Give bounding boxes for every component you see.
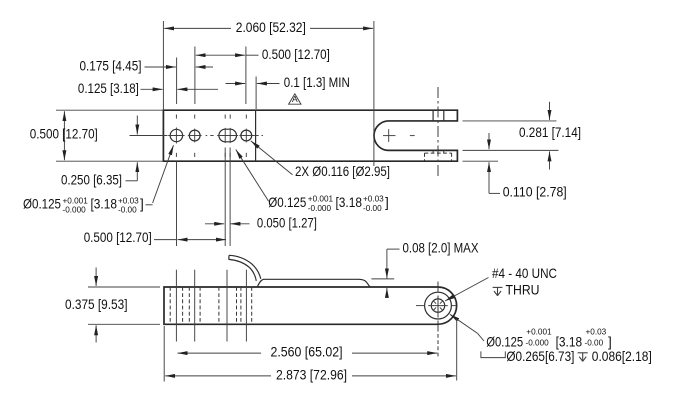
extension line right end for 2.873 — [456, 319, 458, 381]
svg-text:[3.18: [3.18 — [556, 334, 583, 349]
hidden hole edge lines in beam: H2 — [189, 287, 200, 324]
dimension 2.060 [52.32] — [164, 20, 373, 35]
svg-text:[3.18: [3.18 — [336, 195, 363, 210]
cable upper edge — [229, 255, 261, 278]
svg-text:0.125 [3.18]: 0.125 [3.18] — [78, 81, 139, 96]
gage cover top extension line — [371, 278, 394, 280]
hidden hole edge lines in beam: H3 obround — [219, 287, 237, 324]
extension lines left of top view — [56, 110, 168, 161]
svg-text:0.110 [2.78]: 0.110 [2.78] — [503, 185, 567, 200]
hole H4 (Ø0.116 second) — [239, 129, 253, 143]
svg-text:2X Ø0.116 [Ø2.95]: 2X Ø0.116 [Ø2.95] — [295, 164, 390, 179]
centerline extension to 2.560 dimension — [437, 334, 439, 357]
hole H1 (Ø0.125 left) — [168, 128, 184, 144]
vertical centerline of clevis pin hole — [437, 87, 439, 177]
dimension 0.281 [7.14] — [519, 102, 581, 170]
depth symbol for 0.086 — [578, 353, 588, 362]
leader #4-40 UNC to threaded hole — [445, 278, 489, 302]
dimension 0.500 [12.70] top — [196, 47, 330, 62]
hidden counterbore in bottom clevis arm — [425, 150, 452, 161]
hidden hole edge lines in beam: H4 — [241, 287, 252, 324]
svg-text:Ø0.125: Ø0.125 — [268, 195, 306, 210]
cable lower edge — [229, 259, 256, 281]
leader Ø0.125 callout to counterbore — [450, 314, 484, 341]
end hole crosshair — [428, 296, 448, 316]
gage cover mound on top of beam — [257, 279, 370, 287]
threaded hole inner circle — [431, 299, 444, 312]
clevis slot crosshair center mark — [383, 129, 396, 142]
extension lines left of bottom view — [88, 287, 160, 324]
svg-text:0.050 [1.27]: 0.050 [1.27] — [257, 215, 317, 230]
dimension 0.500 [12.70] lower — [84, 230, 226, 245]
svg-text:THRU: THRU — [506, 283, 540, 298]
leader 2X Ø0.116 callout to hole H4 — [251, 141, 293, 175]
hole centerlines crossing bottom view — [176, 270, 246, 342]
svg-text:0.500 [12.70]: 0.500 [12.70] — [262, 47, 330, 62]
svg-text:0.281 [7.14]: 0.281 [7.14] — [519, 125, 581, 140]
svg-text:Ø0.125: Ø0.125 — [486, 334, 523, 349]
hole center tick marks below holes — [176, 153, 246, 157]
svg-text:0.500 [12.70]: 0.500 [12.70] — [30, 127, 98, 142]
svg-text:]: ] — [140, 197, 144, 212]
top view beam outline with clevis slot — [163, 110, 457, 161]
svg-text:Ø0.265[6.73]: Ø0.265[6.73] — [506, 349, 574, 364]
hole H3 obround (two Ø0.125 holes 0.050 apart) — [217, 128, 238, 143]
svg-text:+0.001: +0.001 — [308, 195, 334, 204]
svg-text:-0.000: -0.000 — [526, 339, 550, 348]
svg-text:0.086[2.18]: 0.086[2.18] — [592, 349, 652, 364]
dimension 0.08 [2.0] MAX with leader — [387, 240, 479, 297]
extension lines above top view — [163, 21, 374, 166]
thread hatch ticks — [434, 301, 443, 310]
clevis slot centerline dash right of crosshair — [410, 135, 415, 137]
callout counterbore Ø0.265[6.73] depth 0.086[2.18] — [481, 349, 652, 364]
counterbore outer circle of end hole — [425, 292, 452, 319]
top view block separator line — [255, 110, 257, 161]
svg-text:0.1 [1.3] MIN: 0.1 [1.3] MIN — [284, 75, 350, 90]
dimension 0.175 [4.45] — [80, 59, 214, 74]
dimension 0.110 [2.78] — [489, 133, 567, 200]
svg-text:-0.00: -0.00 — [363, 204, 382, 213]
depth symbol for THRU — [493, 287, 503, 295]
hidden hole edge lines in beam: H1 — [170, 287, 182, 324]
svg-text:-0.00: -0.00 — [118, 205, 137, 214]
svg-text:-0.00: -0.00 — [585, 339, 604, 348]
hole center tick marks above holes — [176, 115, 246, 119]
dimension 2.560 [65.02] — [178, 345, 438, 360]
svg-text:0.500 [12.70]: 0.500 [12.70] — [84, 230, 152, 245]
svg-text:[3.18: [3.18 — [91, 197, 118, 212]
svg-text:2.873 [72.96]: 2.873 [72.96] — [276, 367, 347, 382]
leader Ø0.125 middle callout to obround hole H3 — [236, 150, 269, 202]
end hole vertical centerline — [437, 282, 439, 332]
svg-text:#4 - 40 UNC: #4 - 40 UNC — [492, 266, 557, 281]
end hole horizontal centerline dashes — [416, 305, 456, 307]
svg-text:2.560 [65.02]: 2.560 [65.02] — [271, 345, 343, 360]
horizontal centerline dashes between holes — [206, 135, 263, 137]
svg-text:0.08 [2.0] MAX: 0.08 [2.0] MAX — [403, 240, 479, 255]
svg-text:-0.000: -0.000 — [308, 204, 332, 213]
svg-text:]: ] — [385, 195, 389, 210]
dimension 0.125 [3.18] — [78, 81, 218, 96]
svg-text:0.375 [9.53]: 0.375 [9.53] — [65, 297, 128, 312]
cross hole lines through top clevis arm — [433, 110, 444, 121]
svg-text:A: A — [292, 94, 298, 104]
dimension 0.1 [1.3] MIN — [226, 75, 350, 90]
dimension 0.375 [9.53] — [65, 268, 128, 343]
svg-text:Ø0.125: Ø0.125 — [23, 197, 61, 212]
svg-text:+0.001: +0.001 — [63, 196, 89, 205]
svg-text:+0.03: +0.03 — [118, 196, 139, 205]
svg-text:+0.001: +0.001 — [526, 327, 552, 336]
svg-text:0.175 [4.45]: 0.175 [4.45] — [80, 59, 142, 74]
bottom view beam outline with rounded right end — [164, 287, 457, 324]
callout Ø0.125 +0.001/-0.000 [3.18 +0.03/-0.00] bottom right — [486, 327, 612, 349]
dimension 0.250 [6.35] — [61, 116, 137, 188]
svg-text:]: ] — [608, 334, 612, 349]
cable cut end cap — [228, 255, 230, 259]
leader Ø0.125 callout to hole H1 — [146, 145, 174, 205]
hole H2 (Ø0.116 first) — [188, 129, 202, 143]
extension lines right of clevis slot — [463, 121, 559, 161]
svg-text:0.250 [6.35]: 0.250 [6.35] — [61, 172, 122, 187]
datum flag A — [289, 94, 301, 104]
callout #4 - 40 UNC THRU — [492, 266, 557, 298]
callout Ø0.125 +0.001/-0.000 [3.18 +0.03/-0.00] left — [23, 196, 144, 214]
dimension 2.873 [72.96] — [165, 367, 456, 382]
svg-text:+0.03: +0.03 — [363, 195, 384, 204]
extension lines between views for 0.500 and 0.050 — [177, 148, 231, 247]
callout Ø0.125 +0.001/-0.000 [3.18 +0.03/-0.00] middle — [268, 195, 388, 213]
svg-text:+0.03: +0.03 — [586, 327, 607, 336]
svg-text:-0.000: -0.000 — [63, 205, 87, 214]
extension line left end below beam for 2.873 — [163, 326, 165, 382]
svg-text:2.060 [52.32]: 2.060 [52.32] — [236, 20, 306, 35]
dimension 0.500 [12.70] left vertical — [30, 111, 98, 160]
dimension 0.050 [1.27] — [205, 215, 317, 230]
